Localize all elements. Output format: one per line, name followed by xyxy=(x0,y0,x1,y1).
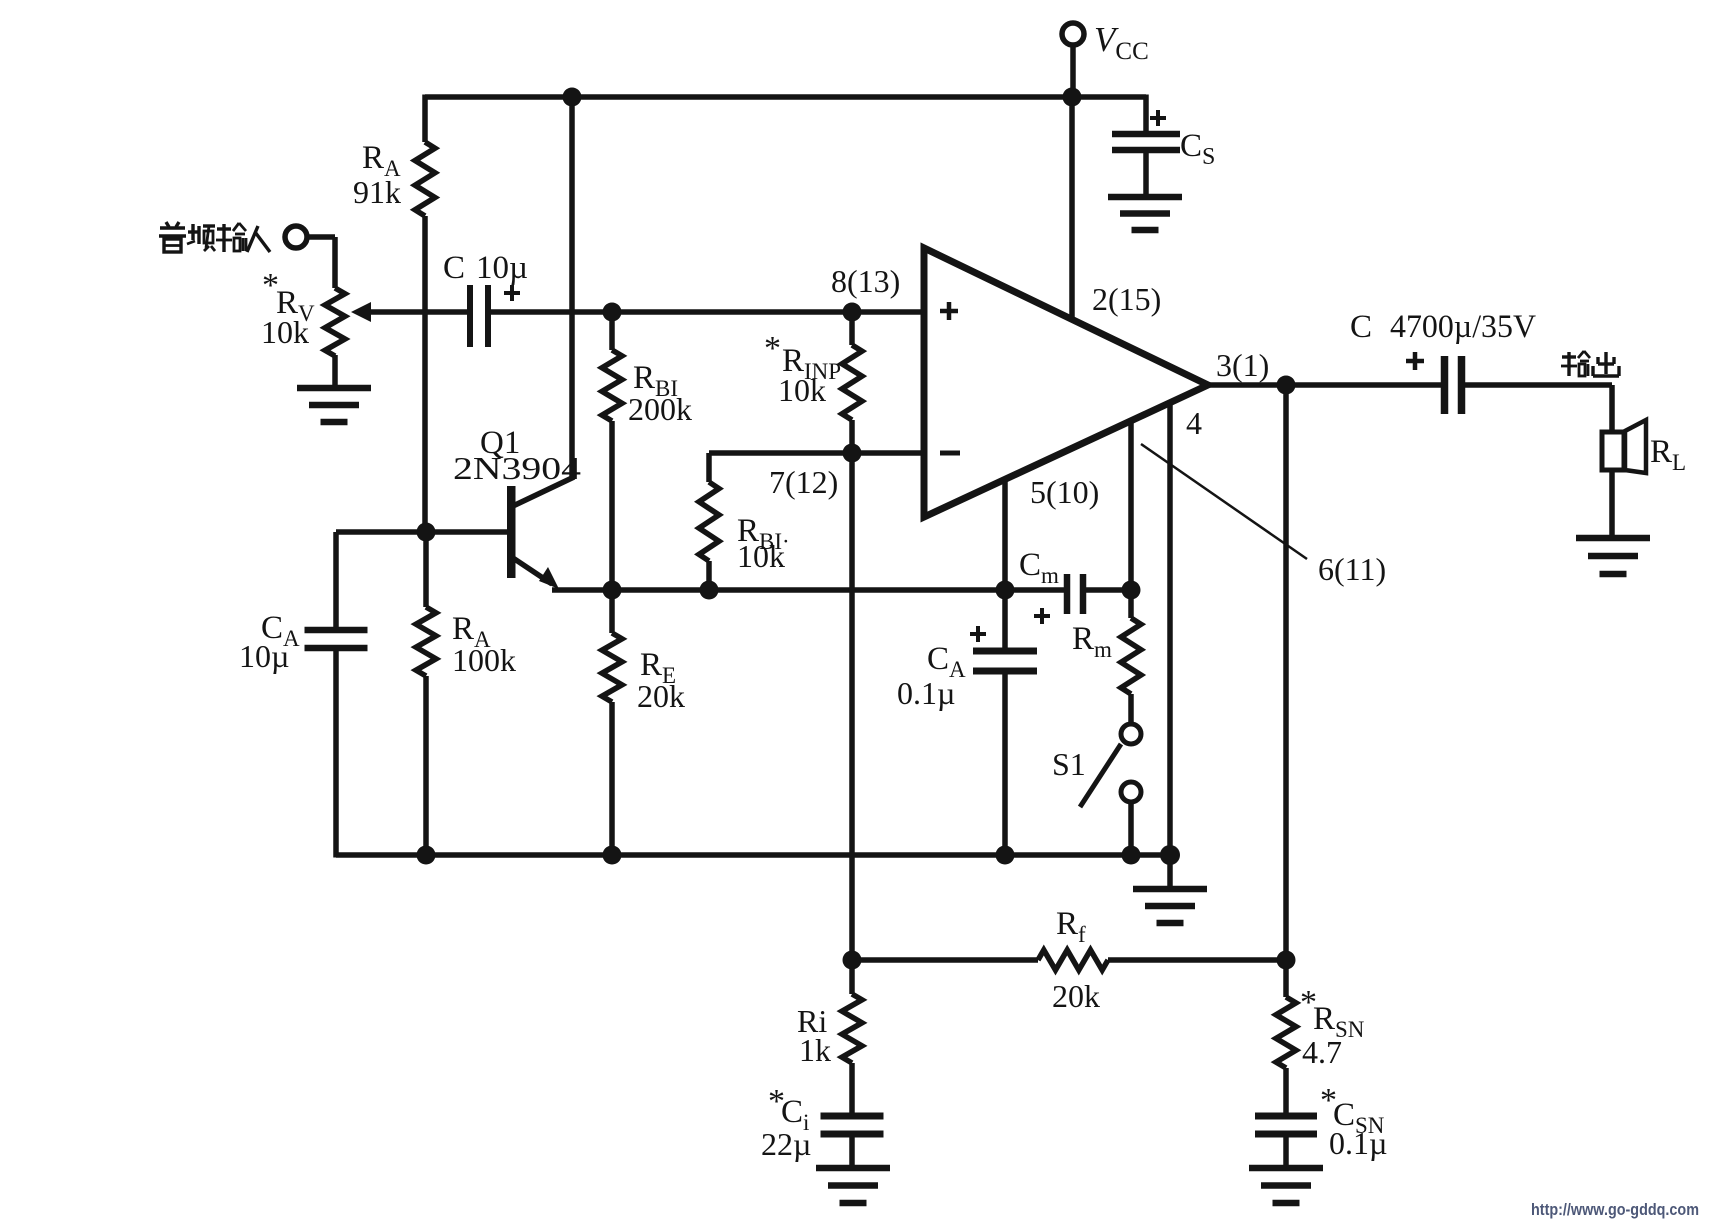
resistor RBI 200k xyxy=(609,312,615,350)
resistor RA 100k xyxy=(423,532,429,607)
capacitor Ci 22u xyxy=(821,1113,884,1120)
ground for RV xyxy=(297,385,371,392)
svg-text:S1: S1 xyxy=(1052,746,1086,782)
svg-text:0.1µ: 0.1µ xyxy=(897,675,955,711)
capacitor C 4700u/35V (output coupling) xyxy=(1441,356,1449,414)
resistor Rf 20k xyxy=(852,957,1038,963)
svg-text:20k: 20k xyxy=(1052,978,1100,1014)
wire: pin 4 ground line xyxy=(1167,403,1173,855)
speaker RL xyxy=(1602,432,1624,470)
annotation: pin 6(11) pointer xyxy=(1141,444,1307,559)
resistor RSN 4.7 xyxy=(1283,960,1289,997)
resistor Rm xyxy=(1128,590,1134,618)
svg-text:Rm: Rm xyxy=(1072,621,1112,662)
node: bus junctions xyxy=(417,846,436,865)
svg-text:10µ: 10µ xyxy=(476,250,528,286)
wire: pin 5(10) line xyxy=(1002,479,1008,590)
svg-text:1k: 1k xyxy=(799,1032,831,1068)
wire: pin 2(15) supply line xyxy=(1069,97,1075,320)
wire: inverting input line xyxy=(709,450,924,456)
wire: collector line xyxy=(569,97,575,478)
node: collector junction on rail xyxy=(563,88,582,107)
svg-text:C: C xyxy=(1350,309,1372,345)
capacitor CA 0.1u xyxy=(1002,590,1008,648)
svg-text:5(10): 5(10) xyxy=(1030,474,1099,510)
node: Ri/Rf junction xyxy=(843,951,862,970)
node: RE junction xyxy=(603,581,622,600)
resistor RA 91k xyxy=(422,95,428,143)
svg-text:*: * xyxy=(764,330,781,367)
svg-text:100k: 100k xyxy=(452,642,516,678)
wire: input signal line (wiper to op-amp +) xyxy=(368,309,470,315)
ground for CS xyxy=(1108,194,1182,201)
svg-text:200k: 200k xyxy=(628,391,692,427)
svg-text:3(1): 3(1) xyxy=(1216,347,1269,383)
capacitor C 10u (input coupling) xyxy=(467,285,473,347)
resistor RBI 10k xyxy=(706,453,712,482)
svg-text:10µ: 10µ xyxy=(239,638,289,674)
wire: feedback line from output xyxy=(1283,385,1289,960)
node: RBI bottom junction xyxy=(700,581,719,600)
wire: top V+ rail xyxy=(425,94,1146,100)
svg-text:8(13): 8(13) xyxy=(831,263,900,299)
svg-text:C: C xyxy=(443,250,465,286)
wire: emitter bus xyxy=(552,587,1064,593)
potentiometer RV 10k xyxy=(325,288,345,356)
resistor RE 20k xyxy=(609,590,615,633)
wire: input terminal to RV top xyxy=(306,234,335,240)
svg-text:7(12): 7(12) xyxy=(769,464,838,500)
svg-text:2N3904: 2N3904 xyxy=(453,450,581,486)
wire: Rm pin line from op-amp xyxy=(1128,421,1134,590)
ground for Ci xyxy=(816,1165,890,1172)
svg-text:4: 4 xyxy=(1186,405,1202,441)
resistor Ri 1k xyxy=(849,960,855,994)
wire: output to speaker xyxy=(1465,382,1612,388)
svg-text:6(11): 6(11) xyxy=(1318,551,1386,587)
switch S1 xyxy=(1121,724,1141,744)
svg-text:10k: 10k xyxy=(737,538,785,574)
svg-text:22µ: 22µ xyxy=(761,1126,811,1162)
resistor RINP 10k xyxy=(849,312,855,345)
svg-text:4700µ/35V: 4700µ/35V xyxy=(1390,309,1536,345)
ground for RL xyxy=(1576,535,1650,542)
capacitor CA 10u xyxy=(333,532,339,627)
node: + input node 8(13) xyxy=(843,303,862,322)
svg-text:91k: 91k xyxy=(353,174,401,210)
svg-text:2(15): 2(15) xyxy=(1092,281,1161,317)
node: CA junction on emitter bus xyxy=(996,581,1015,600)
power terminal VCC xyxy=(1062,23,1084,45)
wire: bottom bus xyxy=(336,852,1170,858)
label: 音频输入 (audio input) xyxy=(160,226,185,229)
svg-text:RL: RL xyxy=(1650,434,1686,475)
node: Rf/RSN junction xyxy=(1277,951,1296,970)
capacitor Cm xyxy=(1064,574,1071,614)
svg-text:10k: 10k xyxy=(778,372,826,408)
node: RBI top junction xyxy=(603,303,622,322)
node: Cm/Rm junction xyxy=(1122,581,1141,600)
node: - input node 7(12) xyxy=(843,444,862,463)
svg-text:CS: CS xyxy=(1180,128,1215,170)
wire: inverting node down line xyxy=(849,453,855,960)
svg-text:VCC: VCC xyxy=(1094,20,1149,65)
svg-text:0.1µ: 0.1µ xyxy=(1329,1125,1387,1161)
svg-text:http://www.go-gddq.com: http://www.go-gddq.com xyxy=(1531,1200,1699,1219)
ground for pin 4 xyxy=(1167,855,1173,888)
label: 输出 (output) xyxy=(1562,355,1576,358)
svg-text:Cm: Cm xyxy=(1019,547,1059,588)
transistor Q1 2N3904 xyxy=(336,529,507,535)
capacitor CSN 0.1u xyxy=(1255,1113,1317,1120)
op-amp U1 (power amplifier) xyxy=(924,248,1208,517)
wiper arrow of RV xyxy=(351,302,371,322)
capacitor CS (supply bypass) xyxy=(1112,131,1180,138)
svg-text:Rf: Rf xyxy=(1056,906,1086,947)
node: output 3(1) xyxy=(1208,382,1441,388)
svg-text:20k: 20k xyxy=(637,678,685,714)
svg-text:10k: 10k xyxy=(261,314,309,350)
wire: rail corner to Cs xyxy=(1143,95,1149,132)
svg-text:4.7: 4.7 xyxy=(1302,1034,1342,1070)
input terminal (audio input) xyxy=(285,226,307,248)
node: Vcc junction on rail xyxy=(1063,88,1082,107)
ground for CSN xyxy=(1249,1165,1323,1172)
node: Q1 base junction xyxy=(417,523,436,542)
